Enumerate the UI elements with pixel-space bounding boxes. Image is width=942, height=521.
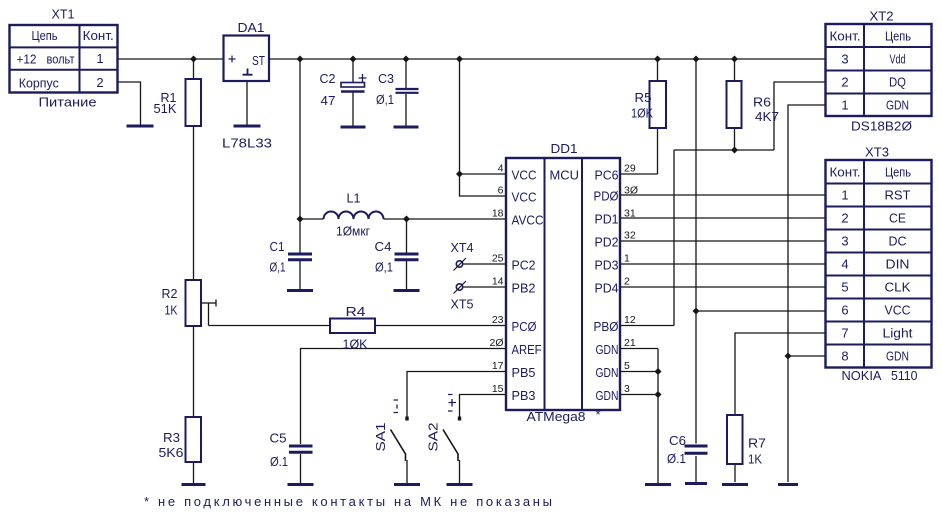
pin name PD2 (32) (595, 235, 619, 250)
XT2 pin 3 (841, 52, 848, 67)
capacitor C6 (685, 446, 708, 453)
svg-text:* не подключенные контакты на: * не подключенные контакты на МК не пока… (144, 494, 552, 509)
pin name GDN (21) (596, 342, 619, 357)
svg-text:PC6: PC6 (595, 168, 619, 183)
label R2 (162, 286, 178, 301)
svg-text:DIN: DIN (886, 257, 910, 272)
label C6 (669, 433, 686, 448)
wire DQ net horizontal (674, 149, 774, 151)
svg-text:3: 3 (841, 52, 848, 67)
wire node down to pin 6 VCC (460, 174, 507, 196)
junction node GDN/XT3 (785, 353, 792, 360)
switch SA1 (391, 417, 409, 462)
wire R5 bottom to PC6 net (657, 128, 659, 174)
label NOKIA 5110 (842, 368, 918, 383)
svg-text:Конт.: Конт. (830, 165, 861, 180)
label C5 (270, 431, 287, 446)
svg-text:2: 2 (841, 75, 848, 90)
resistor R1 (186, 79, 202, 126)
inductor L1 (324, 212, 384, 220)
svg-text:21: 21 (624, 337, 636, 349)
wire rail to R6 top (734, 59, 736, 81)
svg-text:1: 1 (96, 51, 103, 66)
XT3 net CE (889, 211, 906, 226)
wire GDN chain down to ground (657, 349, 659, 484)
pin number 6 (498, 185, 504, 197)
svg-text:1K: 1K (748, 452, 762, 467)
svg-text:8: 8 (841, 349, 848, 364)
pin number 20 (489, 337, 503, 349)
svg-text:4K7: 4K7 (755, 109, 779, 124)
svg-text:CE: CE (889, 211, 906, 226)
wire PB3 pin 15 to SA2 (460, 395, 507, 419)
XT2 header Цепь (885, 29, 911, 44)
label XT5 (451, 297, 474, 312)
ground at GDN chain (645, 483, 671, 486)
wire DA1 ground pin to ground (246, 81, 248, 125)
capacitor C3 (396, 89, 419, 93)
wire PD3 pin 1 to XT3 DIN (620, 263, 826, 265)
wire VCC to XT3 pin6 (696, 310, 826, 312)
svg-text:C3: C3 (378, 71, 394, 86)
pin name PD3 (1) (595, 258, 619, 273)
note: unconnected MCU pins not shown (144, 494, 552, 509)
wire R4 to PC0 pin 23 (375, 325, 506, 327)
value 0,1 (376, 92, 394, 107)
wire SA2 bottom to ground (459, 460, 461, 483)
svg-text:PD2: PD2 (595, 235, 619, 250)
pin number 1 (624, 253, 630, 265)
wire DQ net down to PB0 (673, 150, 675, 326)
XT1 pin 2 (96, 75, 103, 90)
svg-text:32: 32 (624, 230, 636, 242)
XT3 header Цепь (885, 165, 911, 180)
svg-text:17: 17 (492, 360, 504, 372)
svg-text:*: * (596, 407, 601, 422)
value L78L33 (222, 136, 272, 151)
svg-text:3: 3 (624, 383, 630, 395)
svg-text:XT5: XT5 (451, 297, 474, 312)
XT2 header Конт. (830, 29, 861, 44)
ground at C3 (394, 126, 419, 129)
value 0.1 (667, 451, 686, 466)
svg-text:R2: R2 (162, 286, 178, 301)
XT2 pin 1 (841, 98, 848, 113)
svg-text:1: 1 (841, 188, 848, 203)
svg-text:3Ø: 3Ø (624, 185, 638, 197)
svg-text:SA2: SA2 (426, 423, 441, 452)
svg-text:PDØ: PDØ (594, 189, 619, 204)
wire XT5 to PB2 pin 14 (463, 286, 506, 288)
XT2 pin 2 (841, 75, 848, 90)
pin number 2 (624, 276, 630, 288)
svg-text:5: 5 (624, 360, 630, 372)
voltage regulator DA1 (224, 36, 270, 82)
label DS18B20 (851, 119, 912, 134)
ground at C6 (685, 482, 707, 485)
XT3 net VCC (885, 303, 911, 318)
svg-text:C5: C5 (270, 431, 287, 446)
wire PC6 pin 29 (620, 173, 658, 175)
label C3 (378, 71, 394, 86)
pin name PD4 (2) (595, 281, 619, 296)
wire GDN pin 21 (620, 348, 658, 350)
svg-text:5: 5 (841, 280, 848, 295)
svg-text:XT3: XT3 (865, 145, 889, 160)
ground at SA1 (394, 483, 420, 486)
value 1K (165, 303, 178, 318)
pin number 23 (492, 314, 504, 326)
label "-" marks for SA1 (394, 400, 399, 413)
resistor R3 (186, 417, 202, 462)
svg-text:7: 7 (841, 326, 848, 341)
svg-text:Light: Light (883, 326, 913, 341)
svg-text:PBØ: PBØ (594, 319, 619, 334)
wire XT3 pin7 Light to R7 (735, 333, 826, 415)
svg-text:14: 14 (492, 276, 504, 288)
svg-text:2: 2 (841, 211, 848, 226)
svg-text:C6: C6 (669, 433, 686, 448)
svg-text:Корпус: Корпус (19, 76, 59, 91)
pin name VCC (6) (512, 190, 537, 205)
label ATMega8 * (527, 407, 601, 424)
ground at C4 (394, 289, 420, 292)
MCU DD1 box (506, 158, 620, 410)
pin number 5 (624, 360, 630, 372)
svg-text:PD3: PD3 (595, 258, 619, 273)
wire XT4 to PC2 pin 25 (463, 263, 506, 265)
wire R3 bottom to ground (193, 462, 195, 483)
label C4 (375, 239, 392, 254)
XT3 net DIN (886, 257, 910, 272)
junction node VCC/XT3 (693, 308, 700, 315)
junction node rail/C2 (350, 56, 357, 63)
wire rail down to VCC pins node (459, 59, 461, 174)
resistor R5 (650, 81, 667, 128)
wire AREF pin 20 to C5 (301, 349, 507, 445)
value 47 (321, 93, 336, 108)
ground at XT1 pin2 (127, 125, 154, 128)
wire XT1 pin2 to ground (118, 82, 141, 125)
svg-text:C4: C4 (375, 239, 392, 254)
ground at R7 (722, 483, 748, 486)
svg-text:18: 18 (492, 208, 504, 220)
capacitor C4 (395, 254, 419, 260)
value 4K7 (755, 109, 779, 124)
connector pin XT5 (454, 281, 467, 294)
wire rail to R1 top (193, 59, 195, 79)
svg-text:AREF: AREF (512, 342, 542, 357)
pin number 32 (624, 230, 636, 242)
wire C3 leads (405, 59, 407, 126)
XT3 pin 4 (841, 257, 848, 272)
svg-text:вольт: вольт (47, 52, 75, 67)
svg-text:Конт.: Конт. (830, 29, 861, 44)
label XT4 (451, 240, 474, 255)
XT1 net +12 вольт (17, 52, 75, 67)
wire C2 leads (352, 59, 354, 126)
wire C6 bottom to ground (695, 456, 697, 482)
label MCU (550, 168, 580, 183)
connector XT1 (power input table) (10, 25, 118, 93)
wire R1 bottom to R2 top (193, 126, 195, 280)
svg-text:31: 31 (624, 208, 636, 220)
svg-text:Ø.1: Ø.1 (667, 451, 686, 466)
svg-text:DQ: DQ (889, 75, 906, 90)
svg-text:5K6: 5K6 (159, 445, 184, 460)
pin number 30 (624, 185, 638, 197)
svg-text:4: 4 (841, 257, 848, 272)
XT3 header Конт. (830, 165, 861, 180)
pin name PB3 (15) (512, 388, 536, 403)
label XT1 (52, 7, 75, 22)
label R1 (161, 90, 177, 105)
svg-text:5110: 5110 (891, 368, 918, 383)
connector XT3 (NOKIA 5110 table) (826, 160, 932, 368)
svg-text:Цепь: Цепь (885, 29, 911, 44)
junction node rail/R6 (731, 56, 738, 63)
svg-text:ST: ST (252, 53, 265, 68)
svg-text:+12: +12 (17, 52, 37, 67)
pin name GDN (3) (596, 388, 619, 403)
svg-text:R3: R3 (163, 430, 180, 445)
pin name AVCC (18) (512, 213, 544, 228)
pin name PC6 (29) (595, 168, 619, 183)
svg-text:DC: DC (889, 234, 907, 249)
value 10K (343, 337, 368, 352)
wire node to pin 4 VCC (460, 173, 507, 175)
svg-text:L1: L1 (347, 191, 361, 206)
svg-text:AVCC: AVCC (512, 213, 544, 228)
svg-text:SA1: SA1 (373, 423, 388, 452)
svg-text:R4: R4 (346, 304, 366, 319)
XT3 pin 8 (841, 349, 848, 364)
XT2 net Vdd (890, 52, 906, 67)
switch SA2 (443, 417, 461, 462)
svg-text:XT2: XT2 (870, 9, 894, 24)
svg-text:6: 6 (841, 303, 848, 318)
wire L1 to AVCC pin 18 (384, 218, 507, 220)
XT3 net GDN (886, 349, 909, 364)
svg-text:PD1: PD1 (595, 212, 619, 227)
connector pin XT4 (454, 258, 467, 271)
wire DA1 output 3.3V rail to XT2 pin3 (269, 58, 826, 60)
wire SA1 bottom to ground (406, 460, 408, 483)
wire rail down to C6 (VCC column) (695, 59, 697, 444)
wire C4 leads (406, 219, 408, 289)
pin number 21 (624, 337, 636, 349)
wire GDN down to ground (787, 356, 789, 482)
svg-text:1: 1 (624, 253, 630, 265)
svg-text:CLK: CLK (885, 280, 911, 295)
ground at C1 (287, 289, 313, 292)
junction node GDN pin5 (655, 368, 662, 375)
ground at C2 (341, 126, 366, 129)
wire node to L1 (300, 218, 324, 220)
svg-text:12: 12 (624, 314, 636, 326)
svg-text:PCØ: PCØ (512, 319, 537, 334)
junction node rail/L1 column (297, 56, 304, 63)
svg-text:3: 3 (841, 234, 848, 249)
pin name AREF (20) (512, 342, 542, 357)
XT3 net CLK (885, 280, 911, 295)
svg-text:XT1: XT1 (52, 7, 75, 22)
svg-text:Ø.1: Ø.1 (270, 454, 288, 469)
pin number 17 (492, 360, 504, 372)
svg-text:RST: RST (885, 188, 911, 203)
label Питание (39, 95, 97, 110)
pin name PB2 (14) (512, 281, 536, 296)
label SA1 (rotated) (373, 423, 388, 452)
svg-text:VCC: VCC (512, 168, 537, 183)
label R6 (753, 95, 771, 110)
resistor R6 (727, 81, 742, 128)
svg-text:R7: R7 (748, 436, 766, 451)
svg-text:GDN: GDN (596, 388, 619, 403)
XT1 net Корпус (19, 76, 59, 91)
capacitor C5 (289, 446, 313, 452)
XT1 pin 1 (96, 51, 103, 66)
svg-text:51K: 51K (154, 101, 177, 116)
svg-text:PB2: PB2 (512, 281, 536, 296)
wire PD4 pin 2 to XT3 CLK (620, 286, 826, 288)
svg-text:R6: R6 (753, 95, 771, 110)
svg-text:VCC: VCC (512, 190, 537, 205)
label L1 (347, 191, 361, 206)
XT3 pin 6 (841, 303, 848, 318)
resistor R7 (727, 415, 743, 464)
svg-text:VCC: VCC (885, 303, 911, 318)
wire R2 wiper tap (201, 300, 216, 326)
junction node rail/C6 column (693, 56, 700, 63)
svg-text:GDN: GDN (886, 349, 909, 364)
svg-text:PD4: PD4 (595, 281, 619, 296)
label R5 (635, 90, 652, 105)
wire PB5 pin 17 to SA1 (407, 372, 506, 419)
label R3 (163, 430, 180, 445)
capacitor C1 (288, 254, 312, 260)
svg-text:GDN: GDN (596, 365, 619, 380)
value 0,1 (270, 260, 286, 275)
label DA1 (238, 20, 265, 35)
junction node DQ/R6 (731, 147, 738, 154)
wire R7 bottom to ground (734, 464, 736, 482)
resistor R2 (trimmer) (186, 280, 202, 326)
junction node rail/C3 (403, 56, 410, 63)
value 0,1 (375, 260, 393, 275)
svg-text:PC2: PC2 (512, 258, 536, 273)
svg-text:1Øмкг: 1Øмкг (336, 224, 370, 239)
connector XT2 (DS18B20 table) (826, 24, 932, 116)
wire C1 leads (299, 219, 301, 289)
svg-text:4: 4 (498, 163, 504, 175)
wire wiper to R4 (209, 325, 331, 327)
svg-text:GDN: GDN (596, 342, 619, 357)
wire GDN pin 5 (620, 371, 658, 373)
label C1 (270, 239, 285, 254)
junction node VCC pins (456, 171, 463, 178)
ground at SA2 (447, 483, 473, 486)
XT3 pin 3 (841, 234, 848, 249)
ground at DA1 (234, 125, 261, 128)
junction node rail/R5 (654, 56, 661, 63)
label DD1 (551, 141, 578, 156)
wire C5 bottom to ground (300, 454, 302, 483)
pin number 31 (624, 208, 636, 220)
ground at C5 (288, 483, 314, 486)
svg-text:DA1: DA1 (238, 20, 265, 35)
wire XT2 pin1 GDN down (788, 105, 826, 356)
svg-text:23: 23 (492, 314, 504, 326)
label R4 (346, 304, 366, 319)
junction node GDN pin3 (655, 391, 662, 398)
ground at R3 (182, 483, 206, 486)
pin name PC0 (23) (512, 319, 537, 334)
wire XT1 pin1 to DA1 input (net +12V) (118, 58, 224, 60)
svg-text:1K: 1K (165, 303, 178, 318)
wire GDN to XT3 pin8 (788, 355, 826, 357)
XT3 pin 7 (841, 326, 848, 341)
svg-text:29: 29 (624, 163, 636, 175)
wire rail down to L1 left node (299, 59, 301, 219)
svg-text:ATMega8: ATMega8 (527, 409, 586, 424)
value 5K6 (159, 445, 184, 460)
svg-text:15: 15 (492, 383, 504, 395)
XT3 pin 2 (841, 211, 848, 226)
pin name VCC (4) (512, 168, 537, 183)
wire PD0 pin 30 to XT3 RST (620, 194, 826, 196)
svg-text:47: 47 (321, 93, 336, 108)
XT3 net RST (885, 188, 911, 203)
pin name PB5 (17) (512, 365, 536, 380)
pin name PD0 (30) (594, 189, 619, 204)
junction node L1 left (297, 216, 304, 223)
ground at XT3 GDN (778, 483, 798, 486)
XT3 pin 1 (841, 188, 848, 203)
wire R2 bottom to R3 top (193, 326, 195, 417)
svg-text:Цепь: Цепь (885, 165, 911, 180)
svg-text:2: 2 (96, 75, 103, 90)
value 1K (748, 452, 762, 467)
svg-text:Vdd: Vdd (890, 52, 906, 67)
value 10мкг (336, 224, 370, 239)
XT1 header cell Цепь (32, 28, 58, 43)
pin number 4 (498, 163, 504, 175)
wire GDN pin 3 (620, 394, 658, 396)
pin name PB0 (12) (594, 319, 619, 334)
junction node rail/R1 (190, 56, 197, 63)
pin name PD1 (31) (595, 212, 619, 227)
svg-text:2Ø: 2Ø (489, 337, 503, 349)
label "+" marks for SA2 (448, 395, 456, 412)
pin number 3 (624, 383, 630, 395)
pin number 25 (492, 253, 504, 265)
svg-text:1ØK: 1ØK (343, 337, 368, 352)
pin name PC2 (25) (512, 258, 536, 273)
svg-text:Ø,1: Ø,1 (375, 260, 393, 275)
capacitor C2 (electrolytic) (341, 74, 367, 92)
pin number 12 (624, 314, 636, 326)
label XT2 (870, 9, 894, 24)
junction node rail/VCC column (456, 56, 463, 63)
XT2 net DQ (889, 75, 906, 90)
label SA2 (rotated) (426, 423, 441, 452)
svg-text:25: 25 (492, 253, 504, 265)
label R7 (748, 436, 766, 451)
svg-text:2: 2 (624, 276, 630, 288)
label C2 (320, 71, 336, 86)
svg-text:DS18B2Ø: DS18B2Ø (851, 119, 912, 134)
